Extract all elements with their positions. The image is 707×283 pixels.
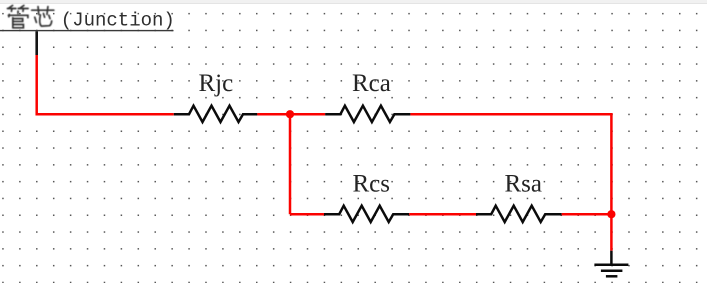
node junction dot (top) (286, 110, 294, 118)
svg-text:(Junction): (Junction) (61, 10, 175, 32)
svg-text:Rcs: Rcs (353, 170, 391, 197)
resistor Rsa (476, 206, 562, 222)
wire: red left vertical + top horizontal to Rjc (37, 55, 174, 114)
title 管芯 (drawn glyphs) (7, 5, 53, 27)
node junction dot (bottom right) (607, 210, 615, 218)
官 roof (14, 11, 21, 13)
芯 grass radical (32, 7, 54, 14)
resistor Rjc (174, 106, 257, 122)
wire: red between Rsa and right node (562, 213, 612, 216)
wire: red top right horizontal + right vertical (410, 114, 611, 214)
wire: red down to ground (610, 214, 613, 251)
svg-text:Rjc: Rjc (199, 70, 234, 97)
心 (35, 17, 37, 22)
svg-text:Rca: Rca (352, 70, 391, 97)
ground GND (594, 251, 628, 277)
wire: black stub below title (35, 31, 38, 55)
title underline (0, 30, 174, 31)
resistor Rca (325, 106, 410, 122)
wire: red between Rjc and Rca (257, 113, 325, 116)
wire: red bottom left from middle vertical to Rcs (290, 213, 324, 216)
管 bamboo radical (9, 5, 13, 8)
wire: red between Rcs and Rsa (409, 213, 476, 216)
resistor Rcs (324, 206, 409, 222)
top window edge band (0, 0, 707, 3)
svg-text:Rsa: Rsa (505, 170, 543, 197)
wire: red middle vertical (289, 114, 292, 214)
官 lower boxes (9, 18, 16, 28)
